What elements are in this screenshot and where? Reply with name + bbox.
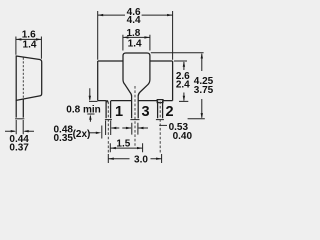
svg-text:0.8 min: 0.8 min bbox=[66, 105, 100, 116]
dim 1.6/1.4 lines bbox=[16, 38, 42, 40]
svg-text:0.35: 0.35 bbox=[54, 133, 74, 144]
side view body bbox=[16, 56, 42, 100]
lead width extension ticks bbox=[106, 121, 138, 136]
1.5 dim arrowheads bbox=[111, 147, 116, 149]
svg-text:1: 1 bbox=[115, 104, 123, 120]
main view body bottom edge bbox=[98, 100, 173, 102]
svg-text:3.0: 3.0 bbox=[134, 154, 148, 165]
lead1 width arrow shaft (2x leader) bbox=[90, 132, 97, 134]
side view lead tip tick bbox=[15, 118, 24, 120]
dim 0.8min references bbox=[87, 101, 97, 114]
bell (center molded dome) bbox=[123, 53, 150, 118]
svg-text:2.4: 2.4 bbox=[176, 79, 190, 90]
lead1 width arrowhead (2x leader) bbox=[96, 132, 101, 134]
side view mold line (hidden, dashed) bbox=[22, 58, 24, 99]
lead width arrows shafts (row between leads) bbox=[111, 127, 148, 129]
svg-text:1.4: 1.4 bbox=[23, 40, 37, 51]
lead centerlines (dashed) bbox=[108, 86, 160, 153]
0.44 arrows (inward) bbox=[11, 130, 16, 132]
1.8 dim arrows bbox=[123, 36, 128, 38]
dim 2.6/2.4 arrow shafts bbox=[183, 62, 185, 101]
4.25 arrows bbox=[201, 53, 203, 58]
svg-text:3.75: 3.75 bbox=[194, 85, 214, 96]
dim 4.6/4.4 bbox=[98, 11, 173, 60]
dim 4.25/3.75 references bbox=[151, 53, 205, 119]
lead tip ticks bbox=[105, 119, 164, 121]
arrowheads bbox=[11, 14, 203, 160]
3.0 dim arrowheads bbox=[108, 158, 113, 160]
svg-text:4.4: 4.4 bbox=[127, 15, 141, 26]
dim 0.44/0.37 arrows and ticks bbox=[5, 130, 34, 132]
0.8min arrows bbox=[89, 96, 91, 101]
dim 3.0 bbox=[108, 158, 161, 160]
side view lead bbox=[16, 99, 23, 118]
main view body rectangle bbox=[98, 60, 173, 62]
2.6 arrows bbox=[183, 61, 185, 66]
4.6 dim arrows bbox=[98, 14, 103, 16]
svg-text:1.4: 1.4 bbox=[128, 39, 142, 50]
svg-text:1.8: 1.8 bbox=[126, 28, 140, 39]
svg-text:1.5: 1.5 bbox=[116, 138, 130, 149]
dim 2.6/2.4 references bbox=[174, 61, 188, 101]
leader target tick bbox=[101, 126, 103, 139]
dim text 0.53 / 0.40 with leader bbox=[159, 124, 167, 126]
svg-text:(2x): (2x) bbox=[73, 129, 91, 140]
dim 0.8min arrow shafts bbox=[89, 88, 92, 122]
svg-text:2: 2 bbox=[165, 104, 173, 120]
dim 1.8/1.4 bbox=[123, 35, 150, 51]
dim 1.5 bbox=[110, 147, 142, 149]
lead 2 shoulder nub bbox=[157, 100, 163, 103]
dim 4.25/3.75 arrow shafts bbox=[201, 54, 203, 118]
lead 1 bbox=[106, 101, 111, 119]
lead 1 shoulder nub bbox=[106, 100, 108, 102]
svg-text:0.37: 0.37 bbox=[9, 143, 29, 154]
lead width arrowheads bbox=[111, 127, 116, 129]
lead 2 bbox=[158, 101, 163, 119]
svg-text:0.40: 0.40 bbox=[173, 131, 193, 142]
1.6 dim arrows bbox=[16, 38, 21, 40]
svg-text:3: 3 bbox=[141, 104, 149, 120]
